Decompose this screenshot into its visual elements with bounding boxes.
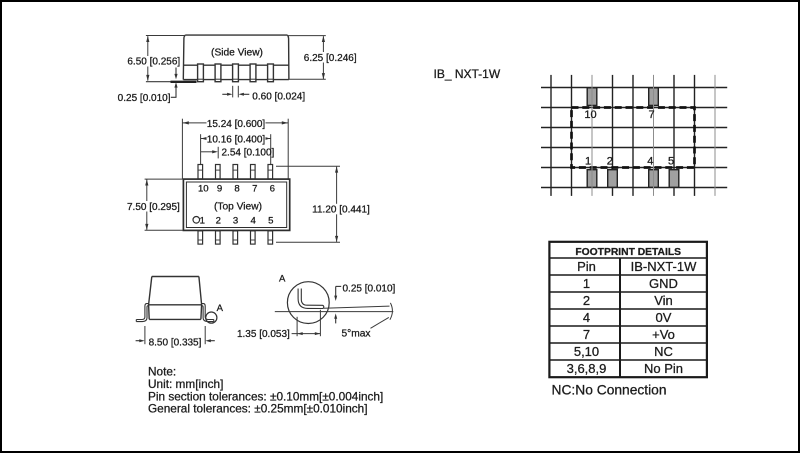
svg-text:8: 8 [234,183,239,194]
svg-text:Vin: Vin [654,293,673,308]
svg-text:1: 1 [585,156,591,168]
svg-text:IB-NXT-1W: IB-NXT-1W [631,259,697,274]
svg-text:No Pin: No Pin [644,361,683,376]
svg-text:7.50 [0.295]: 7.50 [0.295] [127,202,180,213]
svg-text:5,10: 5,10 [574,344,599,359]
svg-text:6.50 [0.256]: 6.50 [0.256] [127,57,180,68]
svg-text:4: 4 [251,215,257,226]
svg-text:5°max: 5°max [342,329,371,340]
svg-text:7: 7 [583,327,590,342]
svg-text:Pin: Pin [577,259,596,274]
svg-text:A: A [279,274,286,285]
svg-text:8.50 [0.335]: 8.50 [0.335] [149,337,202,348]
svg-text:2: 2 [216,215,221,226]
svg-text:FOOTPRINT DETAILS: FOOTPRINT DETAILS [575,247,681,258]
svg-text:11.20 [0.441]: 11.20 [0.441] [312,205,370,216]
svg-text:10.16 [0.400]: 10.16 [0.400] [207,134,266,145]
svg-text:IB_ NXT-1W: IB_ NXT-1W [434,67,501,81]
svg-text:0.25 [0.010]: 0.25 [0.010] [118,93,171,104]
svg-text:NC: NC [654,344,673,359]
svg-text:7: 7 [648,109,654,121]
svg-text:GND: GND [649,276,678,291]
svg-text:1: 1 [200,215,205,226]
svg-text:10: 10 [584,109,596,121]
svg-text:A: A [217,303,224,314]
svg-text:2.54 [0.100]: 2.54 [0.100] [222,148,275,159]
svg-text:1.35 [0.053]: 1.35 [0.053] [237,329,290,340]
svg-text:NC:No Connection: NC:No Connection [552,383,667,398]
svg-text:10: 10 [198,183,209,194]
svg-text:2: 2 [583,293,590,308]
svg-text:0.60 [0.024]: 0.60 [0.024] [252,92,305,103]
svg-text:6: 6 [270,183,275,194]
svg-text:7: 7 [252,183,257,194]
svg-text:15.24 [0.600]: 15.24 [0.600] [207,119,266,130]
svg-text:4: 4 [647,156,653,168]
svg-text:6.25 [0.246]: 6.25 [0.246] [304,53,357,64]
svg-text:(Top View): (Top View) [214,201,262,212]
svg-text:0.25 [0.010]: 0.25 [0.010] [343,284,396,295]
svg-text:5: 5 [668,155,674,167]
svg-text:0V: 0V [656,310,672,325]
svg-text:9: 9 [217,183,222,194]
svg-text:General tolerances: ±0.25mm[±0: General tolerances: ±0.25mm[±0.010inch] [148,402,368,416]
svg-text:5: 5 [268,215,273,226]
svg-text:2: 2 [607,155,613,167]
svg-text:+Vo: +Vo [652,327,675,342]
svg-text:(Side View): (Side View) [211,48,263,59]
svg-text:4: 4 [583,310,590,325]
svg-text:3: 3 [233,215,238,226]
svg-text:3,6,8,9: 3,6,8,9 [567,361,607,376]
svg-text:1: 1 [583,276,590,291]
